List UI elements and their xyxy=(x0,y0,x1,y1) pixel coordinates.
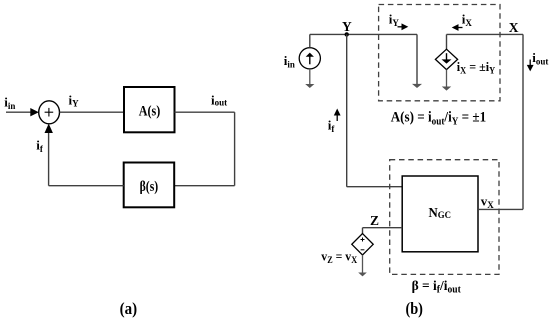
arrowhead feedback into summing node xyxy=(45,124,53,133)
ground arrow under CCCS xyxy=(442,87,451,91)
svg-text:A(s): A(s) xyxy=(139,103,161,119)
minus sign inside VCVS xyxy=(361,249,365,251)
current source i_in circle xyxy=(299,48,320,69)
wire right vertical X to v_X xyxy=(522,34,524,209)
wire into beta(s) right xyxy=(174,185,234,187)
block N_GC xyxy=(402,176,478,252)
block beta(s) xyxy=(124,163,175,208)
dashed box A(s) section xyxy=(379,5,500,101)
plus sign inside VCVS xyxy=(361,238,365,242)
wire v_X from N_GC to right rail xyxy=(478,208,523,210)
wire Z into N_GC xyxy=(363,227,403,229)
wire right vertical xyxy=(234,112,236,186)
wire VCVS top stub xyxy=(362,228,364,234)
VCVS diamond v_Z xyxy=(352,234,373,255)
wire CCCS bottom stub xyxy=(446,70,448,88)
arrowhead input xyxy=(30,108,39,116)
wire input arrow into summing node xyxy=(6,111,32,113)
wire i_in source top stub xyxy=(309,34,311,47)
wire beta(s) output left xyxy=(49,185,124,187)
arrow i_Y right xyxy=(398,26,405,28)
wire i_f vertical from Y xyxy=(346,34,348,186)
CCCS diamond i_X xyxy=(435,49,457,69)
arrow i_X left xyxy=(456,27,463,29)
dashed box beta section xyxy=(390,160,499,275)
plus sign in summing junction xyxy=(45,108,54,117)
ground arrow under i_in source xyxy=(305,84,314,88)
svg-text:(b): (b) xyxy=(405,299,423,318)
wire CCCS top stub xyxy=(446,34,448,49)
svg-text:Z: Z xyxy=(370,213,379,228)
node Y dot xyxy=(345,32,349,36)
wire A(s) output xyxy=(175,111,235,113)
wire feedback vertical xyxy=(48,133,50,186)
svg-text:(a): (a) xyxy=(120,299,138,318)
svg-text:Y: Y xyxy=(342,19,352,34)
summing junction circle xyxy=(39,101,60,124)
wire i_f horizontal into N_GC xyxy=(347,186,403,188)
svg-text:X: X xyxy=(509,20,519,35)
block A(s) xyxy=(124,87,175,132)
wire top rail left segment xyxy=(310,33,417,35)
wire VCVS bottom stub xyxy=(362,255,364,273)
svg-text:β(s): β(s) xyxy=(140,179,159,195)
arrow i_f up xyxy=(336,113,338,121)
arrow inside CCCS pointing down xyxy=(446,53,448,60)
arrow i_out down xyxy=(529,60,531,68)
ground arrow i_Y branch xyxy=(412,84,422,88)
wire i_in source bottom stub xyxy=(309,69,311,85)
wire summing node to A(s) xyxy=(60,111,125,113)
wire i_Y branch vertical xyxy=(416,34,418,84)
arrow inside i_in source xyxy=(309,56,311,64)
wire top rail right segment xyxy=(447,33,524,35)
ground arrow under VCVS xyxy=(358,273,367,277)
